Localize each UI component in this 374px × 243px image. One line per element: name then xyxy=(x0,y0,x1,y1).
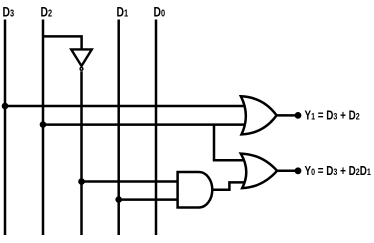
svg-text:D2: D2 xyxy=(41,4,53,20)
wire inverter output vertical xyxy=(80,71,83,235)
wire D3 to OR1 (y=106) xyxy=(5,105,246,108)
node Y0 label xyxy=(305,165,372,178)
node Y1 output dot xyxy=(295,112,302,119)
wire D1 to AND (y=199.6) xyxy=(119,198,178,201)
node D3 label xyxy=(3,4,15,20)
wire AND output to OR2 input 2 xyxy=(212,182,246,189)
inverter U1 triangle xyxy=(71,49,92,66)
inverter U1 bubble xyxy=(80,67,83,70)
wire OR2 output xyxy=(277,170,295,173)
svg-text:D3: D3 xyxy=(3,4,15,20)
wire D2 to OR1 (y=124.6) xyxy=(43,123,246,126)
wire inverter output to AND (y=181.5) xyxy=(82,180,179,183)
svg-text:Y1 = D3 + D2: Y1 = D3 + D2 xyxy=(305,110,361,123)
svg-text:D1: D1 xyxy=(117,4,129,20)
wire OR1 output xyxy=(277,114,295,117)
node junction on D2 xyxy=(40,121,47,128)
node Y0 output dot xyxy=(295,167,302,174)
wire D1 vertical xyxy=(117,20,120,236)
or-gate U4 (Y0) xyxy=(241,154,277,189)
node D1 label xyxy=(117,4,129,20)
svg-text:Y0 = D3 + D2D1: Y0 = D3 + D2D1 xyxy=(305,165,372,178)
node D0 label xyxy=(154,4,166,20)
wire D3 vertical xyxy=(4,20,7,236)
wire branch down to OR2 input 1 xyxy=(214,125,247,161)
node D2 label xyxy=(41,4,53,20)
node junction on D1 xyxy=(115,196,122,203)
wire D2 vertical xyxy=(42,20,45,236)
and-gate U2 xyxy=(178,172,213,208)
wire D0 vertical xyxy=(155,20,158,236)
wire D2 branch to inverter xyxy=(43,36,82,48)
or-gate U3 (Y1) xyxy=(241,96,277,134)
svg-text:D0: D0 xyxy=(154,4,166,20)
node Y1 label xyxy=(305,110,361,123)
node junction on D3 xyxy=(2,103,9,110)
node junction on inverter output xyxy=(78,178,85,185)
